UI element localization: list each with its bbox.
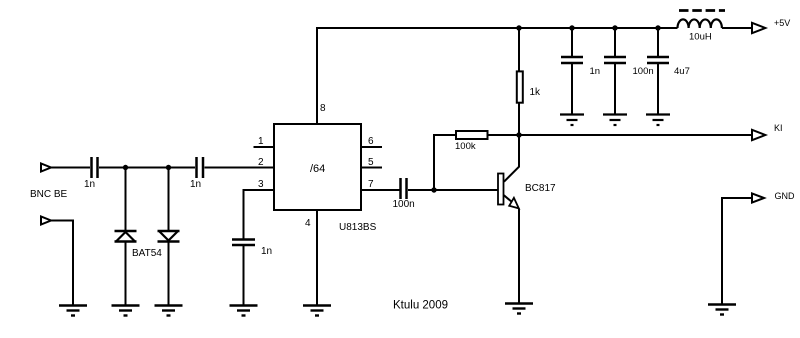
svg-text:3: 3 xyxy=(258,179,264,190)
svg-text:1n: 1n xyxy=(590,66,601,77)
svg-text:1n: 1n xyxy=(261,246,272,257)
svg-text:5: 5 xyxy=(368,157,374,168)
svg-text:8: 8 xyxy=(320,103,326,114)
svg-text:1n: 1n xyxy=(190,179,201,190)
svg-text:+5V: +5V xyxy=(774,18,790,28)
svg-text:100n: 100n xyxy=(633,66,654,77)
svg-text:2: 2 xyxy=(258,157,264,168)
svg-text:4: 4 xyxy=(305,218,311,229)
svg-text:BAT54: BAT54 xyxy=(132,248,162,259)
svg-text:KI: KI xyxy=(774,123,783,133)
svg-text:/64: /64 xyxy=(310,163,325,175)
svg-text:10uH: 10uH xyxy=(689,32,712,43)
svg-text:4u7: 4u7 xyxy=(674,66,690,77)
svg-text:Ktulu 2009: Ktulu 2009 xyxy=(393,300,448,312)
svg-text:1n: 1n xyxy=(84,179,95,190)
svg-text:100n: 100n xyxy=(393,199,415,210)
svg-text:U813BS: U813BS xyxy=(339,222,377,233)
svg-text:GND: GND xyxy=(775,191,796,201)
svg-text:1: 1 xyxy=(258,136,264,147)
svg-text:1k: 1k xyxy=(530,87,542,98)
svg-text:BNC BE: BNC BE xyxy=(30,189,68,200)
svg-text:100k: 100k xyxy=(455,141,476,152)
svg-text:7: 7 xyxy=(368,179,374,190)
svg-text:6: 6 xyxy=(368,136,374,147)
svg-text:BC817: BC817 xyxy=(525,183,556,194)
